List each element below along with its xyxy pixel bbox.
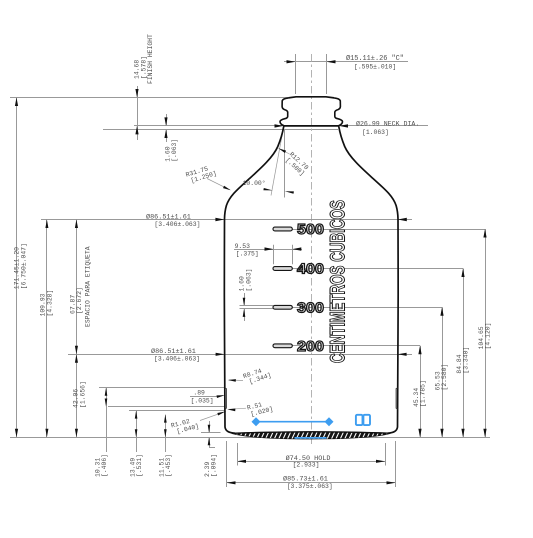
dimension 2.39 (209, 421, 211, 433)
wire: 2.39 reference tick (201, 432, 221, 434)
angle 10.00 deg reference lines (284, 130, 286, 198)
leader R31.75 (207, 179, 230, 190)
dimension 67.87 label space (76, 220, 78, 355)
leader R12.70 (279, 148, 290, 154)
label 65.53 (435, 364, 449, 391)
dimension 1.60 neck ring (166, 114, 168, 126)
svg-text:ESPACIO PARA ETIQUETA: ESPACIO PARA ETIQUETA (85, 246, 92, 327)
dimension 13.49 (136, 411, 138, 452)
graduation mark 400 (273, 267, 292, 271)
label 104.65 (478, 323, 492, 350)
wire: label panel lower line (108, 406, 225, 408)
svg-text:[3.406±.063]: [3.406±.063] (154, 356, 200, 363)
dimension 45.34 to 200 mark (420, 346, 422, 438)
svg-text:[3.406±.063]: [3.406±.063] (154, 221, 200, 228)
blue underline on base (295, 437, 327, 439)
wire: heel upper line (129, 410, 226, 412)
leader R8.74 (229, 379, 243, 382)
wire: 200 graduation reference line (292, 345, 420, 347)
svg-text:[.531]: [.531] (136, 454, 143, 477)
graduation mark 300 (273, 305, 292, 309)
blue pages icon (356, 415, 363, 425)
extension lines D74.50 (237, 443, 239, 466)
wire: 400 graduation reference line (292, 268, 463, 270)
dimension 14.68 finish height (137, 86, 139, 140)
svg-text:[3.375±.063]: [3.375±.063] (287, 483, 333, 490)
dimension 109.93 (46, 220, 48, 438)
svg-text:.89: .89 (193, 389, 205, 396)
wire: neck-ring extension line (134, 125, 284, 127)
label R12.70 (283, 151, 310, 177)
label ESPACIO PARA ETIQUETA (85, 246, 92, 327)
dimension 42.06 (76, 354, 78, 437)
dimension 1.60 graduation thickness refs (240, 305, 274, 307)
label 14.68 finish height (134, 56, 148, 79)
svg-text:[.375]: [.375] (236, 251, 259, 258)
dimension 11.51 (165, 415, 167, 452)
svg-text:Ø26.99 NECK DIA.: Ø26.99 NECK DIA. (356, 120, 419, 128)
svg-text:[.063]: [.063] (245, 268, 252, 291)
label 42.06 (73, 381, 87, 408)
svg-text:[.406]: [.406] (101, 454, 108, 477)
bottle right shoulder and body wall (339, 126, 398, 433)
svg-text:[.595±.010]: [.595±.010] (354, 64, 396, 71)
svg-text:FINISH HEIGHT: FINISH HEIGHT (147, 34, 154, 84)
graduation mark 500 (273, 227, 292, 231)
leader R1.02 (200, 411, 226, 420)
svg-text:[1.656]: [1.656] (79, 381, 86, 408)
wire: finish-top extension line (10, 97, 289, 99)
wire: D86.51 lower line (68, 354, 412, 356)
dimension 171.45 overall height (16, 98, 18, 438)
wire: base ground line (10, 437, 490, 439)
wire: 500 graduation reference line (292, 229, 485, 231)
leader R.51 (229, 408, 247, 409)
svg-text:CENTIMETROS CUBICOS: CENTIMETROS CUBICOS (327, 200, 350, 363)
dimension line D74.50 hold (237, 461, 385, 463)
bottle finish (crown) outline (288, 97, 334, 98)
label 109.93 (40, 290, 54, 317)
wire: neck-bead lower extension line (103, 129, 338, 131)
svg-text:400: 400 (297, 262, 324, 278)
label R1.02 (170, 416, 200, 436)
neck ring line (284, 125, 339, 127)
graduation mark 200 (273, 344, 292, 348)
extension lines D85.73 (226, 441, 228, 487)
label R.51 (246, 399, 274, 419)
svg-text:10.00°: 10.00° (243, 179, 266, 187)
label 10.31 (95, 454, 109, 477)
svg-text:9.53: 9.53 (235, 243, 251, 250)
centerline (311, 54, 313, 444)
svg-text:[1.785]: [1.785] (420, 380, 427, 407)
svg-text:[2.580]: [2.580] (441, 364, 448, 391)
dimension 10.31 (106, 388, 108, 452)
label 45.34 (413, 380, 427, 407)
svg-text:[.035]: [.035] (191, 398, 214, 405)
label R8.74 (242, 365, 272, 387)
dimension line D26.99 neck (339, 125, 428, 127)
dimension line D15.11 (284, 61, 408, 63)
extension lines D15.11 (295, 54, 297, 94)
label 11.51 (159, 454, 173, 477)
bottle left shoulder and body wall (224, 126, 283, 433)
svg-text:[2.933]: [2.933] (293, 462, 320, 469)
label panel inner edge right (396, 388, 398, 409)
svg-text:200: 200 (297, 339, 324, 355)
dimension 65.53 to 300 mark (442, 307, 444, 437)
label panel inner edge left (225, 388, 227, 409)
label 171.45 (14, 243, 28, 289)
svg-text:500: 500 (297, 222, 324, 238)
label 67.87 (69, 287, 83, 314)
wire: label panel upper line (99, 387, 225, 389)
svg-text:Ø15.11±.26 "C": Ø15.11±.26 "C" (346, 54, 404, 63)
label 1.60 neck (164, 139, 178, 162)
dimension 9.53 graduation length (234, 249, 302, 251)
dimension 84.84 to 400 mark (463, 269, 465, 438)
svg-text:[1.063]: [1.063] (362, 129, 389, 136)
label 13.49 (129, 454, 143, 477)
svg-text:[6.750±.047]: [6.750±.047] (20, 243, 27, 289)
leader .89 step (190, 396, 217, 398)
svg-text:300: 300 (297, 300, 324, 316)
svg-text:[.094]: [.094] (211, 454, 218, 477)
label 1.60 graduation (239, 268, 253, 291)
label R31.75 (185, 163, 218, 185)
svg-text:[.063]: [.063] (171, 139, 178, 162)
dimension line D85.73 (227, 482, 396, 484)
svg-text:[4.328]: [4.328] (46, 290, 53, 317)
label 2.39 (204, 454, 218, 477)
wire: 300 graduation reference line (292, 307, 442, 309)
svg-text:[2.672]: [2.672] (76, 287, 83, 314)
svg-text:[.453]: [.453] (165, 454, 172, 477)
wire: D86.51 upper line (41, 219, 412, 221)
blue measure line with diamond ends (256, 421, 329, 423)
dimension 104.65 to 500 mark (485, 229, 487, 437)
label 84.84 (456, 347, 470, 374)
svg-text:[3.340]: [3.340] (463, 347, 470, 374)
svg-text:[4.120]: [4.120] (485, 323, 492, 350)
